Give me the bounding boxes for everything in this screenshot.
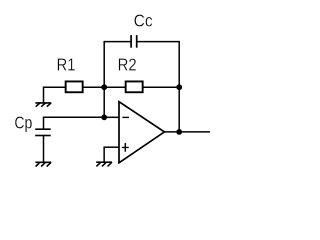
svg-text:R2: R2 xyxy=(118,55,137,75)
op-amp minus sign xyxy=(122,116,129,118)
capacitor Cc plates xyxy=(131,35,137,48)
op-amp U1 triangle xyxy=(119,102,164,163)
wire noninverting input xyxy=(104,146,119,148)
wire Cp horizontal xyxy=(44,116,105,118)
resistor R1 xyxy=(66,81,83,92)
wire inverting input xyxy=(104,116,119,118)
svg-text:Cc: Cc xyxy=(134,10,153,30)
wire output xyxy=(164,131,210,133)
wire top feedback left segment xyxy=(104,41,130,43)
node junction inverting input xyxy=(101,114,107,120)
wire resistor row left xyxy=(44,86,66,88)
ground G2 under Cp xyxy=(35,162,51,166)
wire top feedback right segment xyxy=(138,41,180,43)
svg-text:R1: R1 xyxy=(57,55,76,75)
ground G3 under noninverting input xyxy=(96,162,112,166)
wire Cp lower stem xyxy=(43,136,45,162)
wire noninverting down to ground xyxy=(103,147,105,162)
capacitor Cp plates xyxy=(35,129,51,135)
wire right vertical xyxy=(178,41,180,132)
svg-text:Cp: Cp xyxy=(14,113,32,133)
op-amp plus sign xyxy=(122,143,129,152)
node junction R2-Cc right xyxy=(176,84,182,90)
wire left branch down to ground xyxy=(43,87,45,103)
ground G1 xyxy=(35,103,51,107)
wire between R1 and R2 xyxy=(83,86,126,88)
wire R2 to right vertical xyxy=(143,86,179,88)
node junction output xyxy=(176,129,182,135)
wire Cp upper stem xyxy=(43,117,45,129)
node junction R1-R2 xyxy=(101,84,107,90)
resistor R2 xyxy=(126,81,143,92)
wire left vertical xyxy=(103,41,105,117)
